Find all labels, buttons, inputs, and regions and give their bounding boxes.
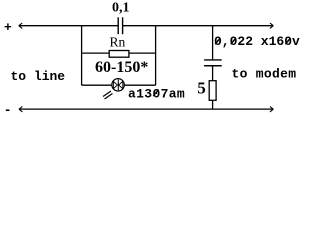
capacitor C2 plates (204, 60, 222, 66)
svg-text:Rn: Rn (110, 34, 126, 49)
surge arrester FV1 center bar (117, 80, 119, 91)
arrow left end of top wire (19, 23, 22, 28)
resistor R2 body (209, 81, 216, 101)
surge arrester FV1 right triangle (119, 81, 123, 88)
wire right branch lower segment (212, 100, 214, 109)
svg-text:a1307am: a1307am (128, 87, 185, 102)
wire top line (left segment up to capacitor C1) (19, 25, 118, 27)
svg-text:to line: to line (11, 69, 66, 84)
svg-text:5: 5 (197, 79, 206, 98)
resistor Rn body (109, 51, 129, 58)
wire arrester branch (82, 84, 156, 86)
svg-text:+: + (4, 20, 12, 35)
arrow right end of bottom wire (270, 107, 273, 112)
svg-text:-: - (4, 102, 12, 115)
slashed zero of a1307am (153, 90, 158, 97)
svg-text:60-150*: 60-150* (95, 59, 148, 76)
wire right branch upper segment (212, 26, 214, 60)
surge arrester FV1 circle (112, 79, 124, 91)
slashed zeros of 0,022 and x160v (215, 38, 290, 45)
wire bottom line (19, 108, 273, 110)
wire resistor Rn branch (82, 52, 156, 54)
capacitor C1 plates (118, 17, 122, 34)
arrow right end of top wire (270, 23, 273, 28)
svg-text:to modem: to modem (232, 67, 297, 82)
svg-text:0,1: 0,1 (112, 1, 130, 16)
node: left vertical of parallel block (81, 26, 83, 85)
surge arrester breakdown slashes (103, 91, 113, 99)
wire right branch middle segment (212, 66, 214, 81)
surge arrester FV1 left triangle (113, 81, 117, 88)
wire top line (right segment from capacitor C1 to right arrow) (123, 25, 274, 27)
node: right vertical of parallel block (155, 26, 157, 85)
arrow left end of bottom wire (19, 107, 22, 112)
